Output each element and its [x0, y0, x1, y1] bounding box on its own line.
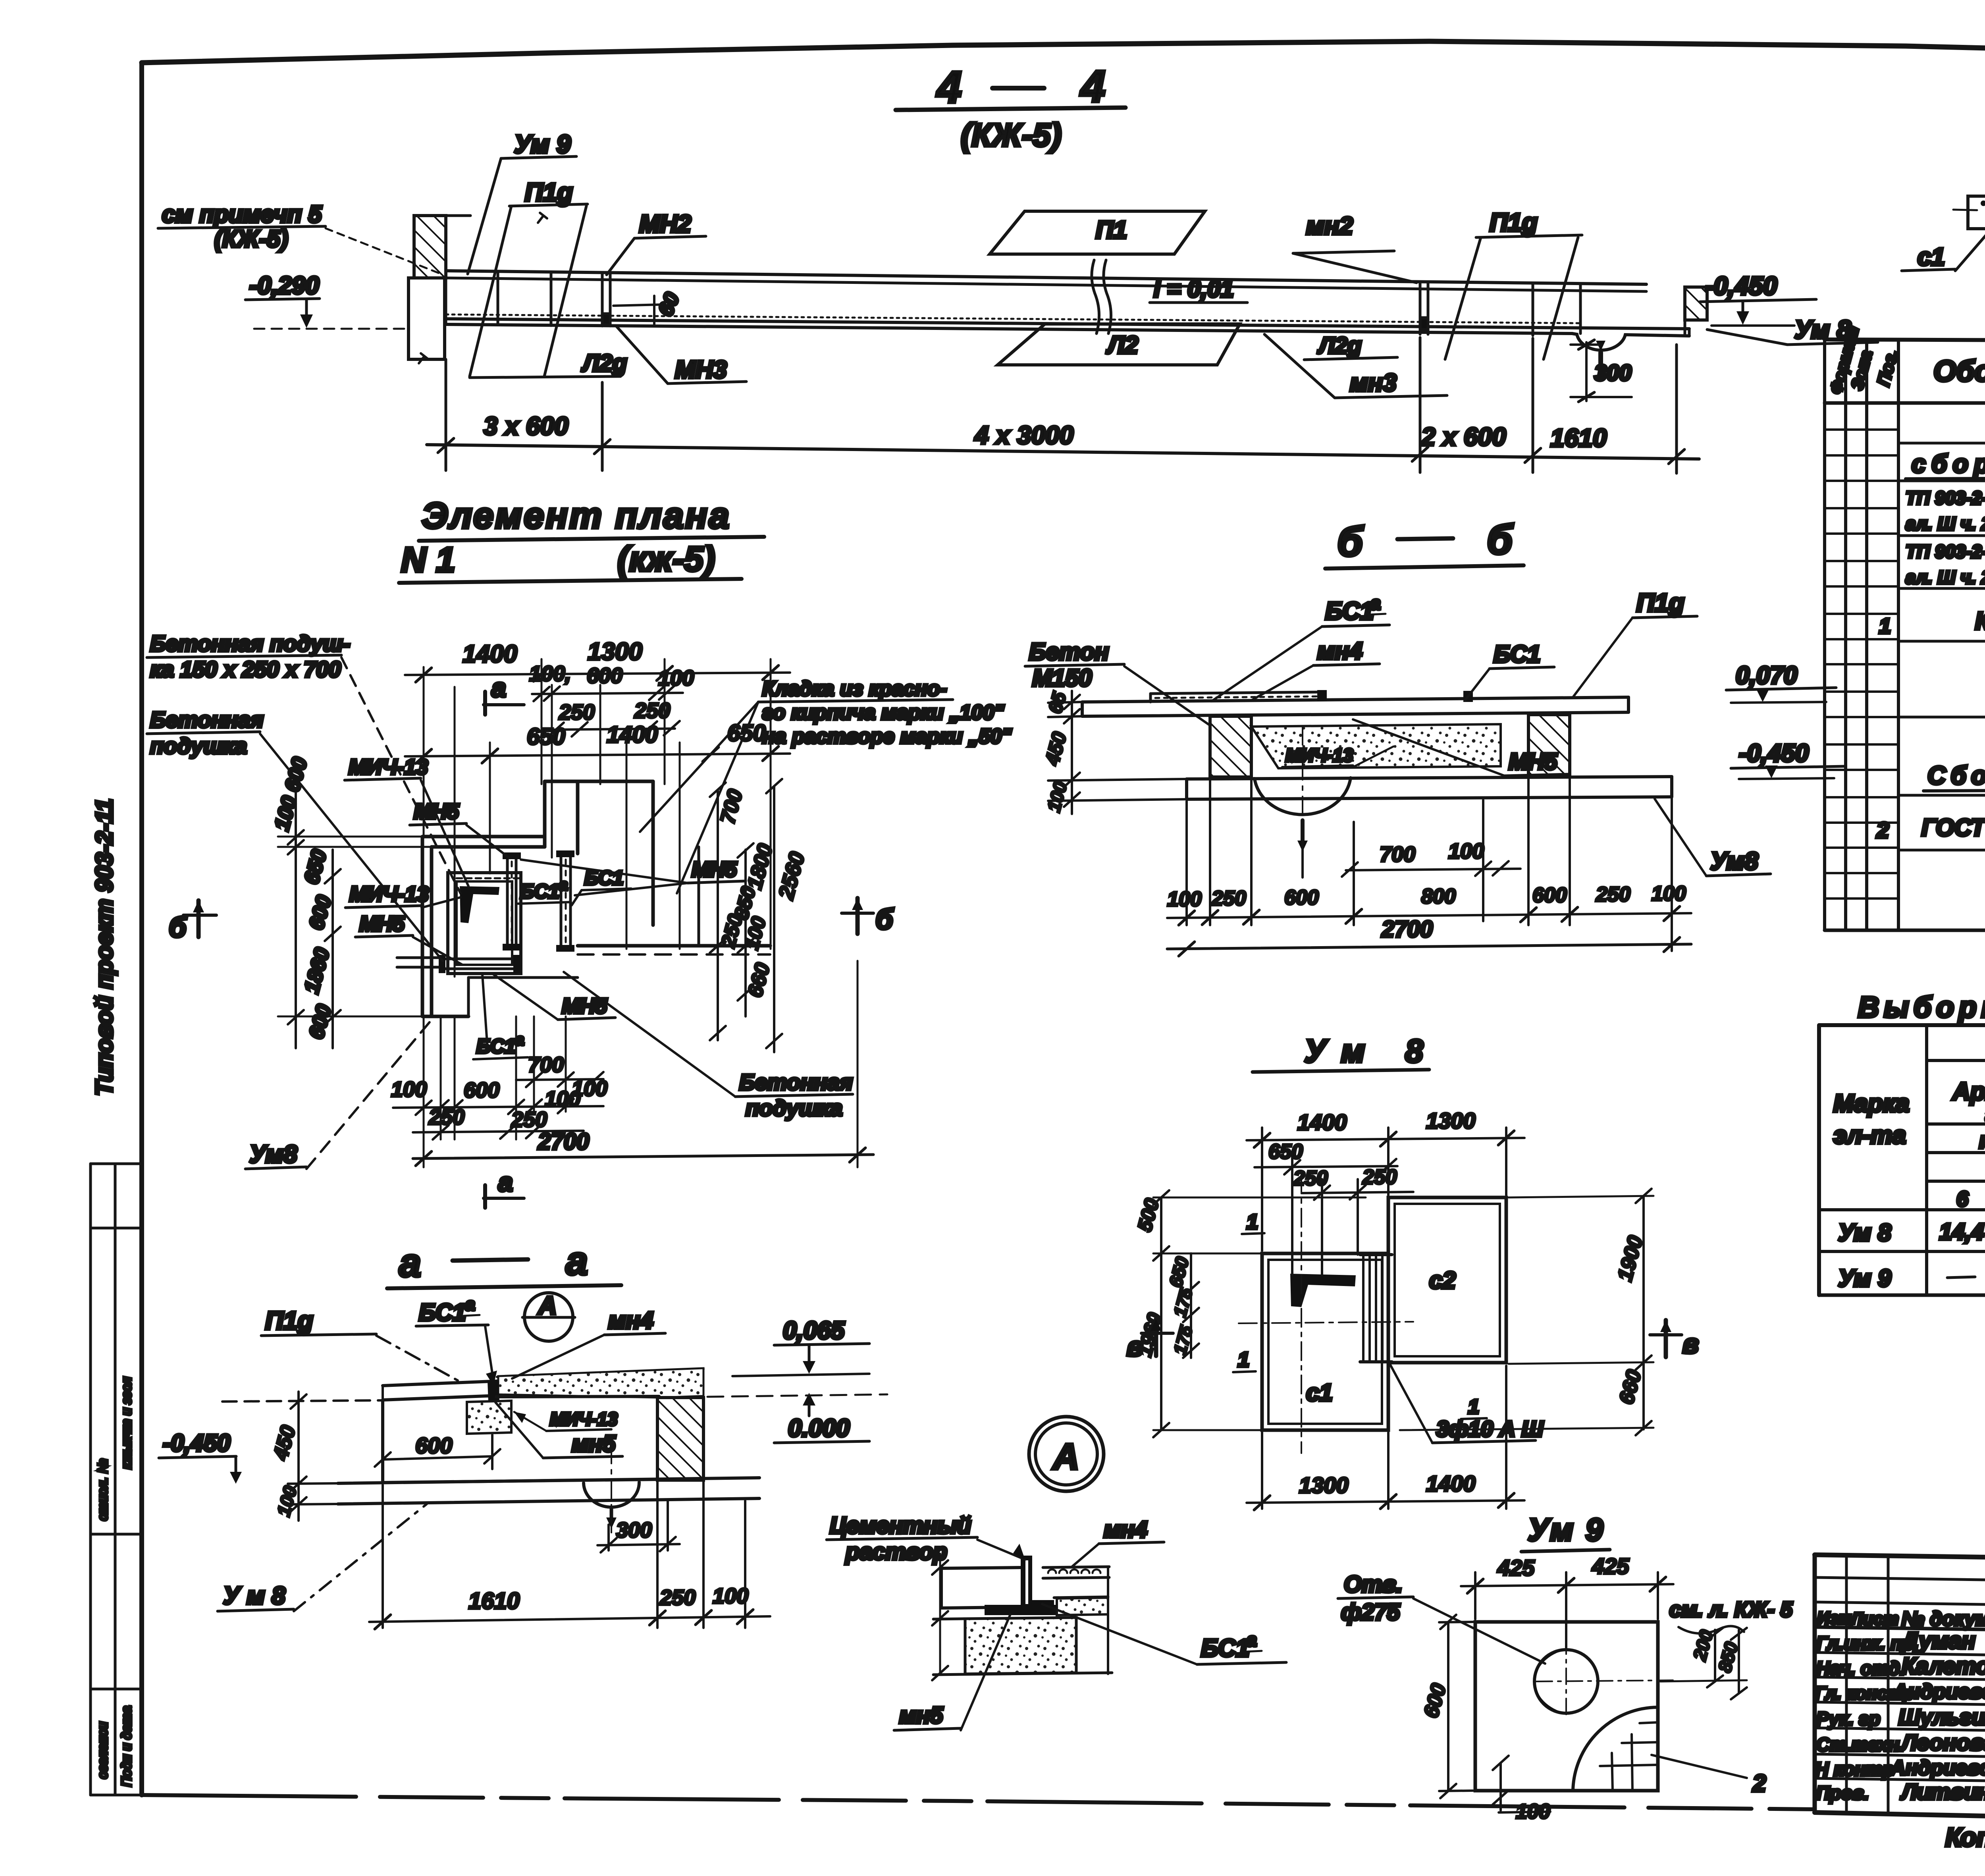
svg-text:650: 650 — [1268, 1140, 1303, 1163]
dim 60 — [613, 289, 684, 326]
level -0.450 top — [1700, 272, 1816, 326]
svg-text:1300: 1300 — [1299, 1473, 1349, 1498]
svg-text:Обозначение: Обозначение — [1933, 355, 1985, 388]
label cement mortar — [827, 1513, 1025, 1565]
right rotated dims — [710, 779, 809, 1052]
section mark b right — [842, 898, 894, 935]
svg-text:МН5: МН5 — [359, 912, 405, 936]
Um8 label 3f10AIII — [1389, 1362, 1544, 1443]
svg-text:с1: с1 — [1918, 243, 1945, 271]
b-b foundation slab — [1187, 727, 1672, 856]
b-b left hatched wall — [1210, 716, 1251, 777]
label L2g left flag — [470, 350, 627, 378]
svg-text:б: б — [875, 904, 894, 935]
b-b bottom chain — [1167, 776, 1691, 951]
svg-text:250: 250 — [1211, 887, 1246, 910]
svg-text:100: 100 — [391, 1078, 427, 1101]
svg-text:БС1: БС1 — [1494, 641, 1540, 667]
b-b label P1g — [1573, 588, 1697, 697]
bottom dim 100 600 100 row — [391, 1078, 603, 1115]
b-b label MN5 — [1353, 719, 1569, 776]
svg-text:600: 600 — [1284, 886, 1319, 909]
svg-text:б: б — [1337, 519, 1364, 565]
svg-text:мн5: мн5 — [572, 1431, 616, 1457]
detail A right slab and concrete — [932, 1554, 1112, 1680]
svg-text:БС1: БС1 — [1325, 598, 1374, 625]
beam joints — [446, 271, 1580, 335]
bracket MICH-13 in plan — [460, 886, 499, 923]
label Um9 — [468, 130, 576, 274]
label MICH-13 — [345, 755, 468, 886]
svg-text:МН3: МН3 — [675, 356, 727, 384]
Um9 circle hole — [1534, 1650, 1598, 1713]
svg-text:650: 650 — [527, 724, 565, 750]
svg-text:100: 100 — [1167, 888, 1202, 911]
steel table grid — [1819, 1025, 1985, 1295]
a-a foundation — [338, 1445, 759, 1533]
svg-text:Ум 9: Ум 9 — [1838, 1265, 1891, 1292]
label mn4 detail — [1072, 1517, 1164, 1567]
svg-text:Цементный: Цементный — [830, 1513, 971, 1539]
Um9 quarter mesh corner — [1573, 1707, 1658, 1791]
pin under arc — [1598, 353, 1603, 376]
svg-text:мн2: мн2 — [1306, 212, 1353, 240]
svg-text:мн3: мн3 — [1350, 369, 1397, 397]
svg-text:раствор: раствор — [845, 1539, 947, 1565]
svg-text:мн4: мн4 — [608, 1307, 653, 1334]
svg-text:с1: с1 — [1306, 1379, 1333, 1406]
plan N1 wall outline — [422, 781, 770, 1016]
svg-text:-0,450: -0,450 — [163, 1430, 230, 1456]
L2 parallelogram mid-span — [998, 324, 1240, 365]
svg-text:МИЧ-13: МИЧ-13 — [1285, 745, 1353, 765]
svg-text:1610: 1610 — [468, 1588, 520, 1614]
svg-text:1: 1 — [1879, 614, 1891, 638]
svg-text:Ум 8: Ум 8 — [1304, 1033, 1423, 1069]
svg-text:мн4: мн4 — [1317, 638, 1363, 664]
Um8 rebar bundle — [1360, 1255, 1392, 1362]
Um9 plan square — [1475, 1622, 1658, 1791]
svg-text:300: 300 — [616, 1518, 652, 1542]
a-a level -0.450 left — [159, 1430, 242, 1484]
svg-text:на растворе марки „50": на растворе марки „50" — [762, 725, 1012, 748]
title block outer frame — [1815, 1555, 1985, 1829]
svg-text:6: 6 — [1956, 1187, 1969, 1211]
b-b level -0.450 — [1731, 740, 1845, 779]
section 4-4 beam deck lines — [446, 271, 1689, 334]
svg-text:с2: с2 — [1429, 1267, 1456, 1294]
label BS1a in pit — [518, 876, 571, 904]
svg-text:Пров.: Пров. — [1816, 1782, 1869, 1803]
a-a label MICH-13 — [514, 1409, 618, 1431]
plan dim extension verticals top — [424, 659, 771, 977]
svg-text:3 х 600: 3 х 600 — [484, 412, 569, 440]
steel table texts — [1833, 1029, 1985, 1296]
svg-text:Кладка из красно-: Кладка из красно- — [762, 677, 947, 700]
svg-text:Калетов: Калетов — [1902, 1653, 1985, 1679]
section 4-4 left wall pier — [409, 213, 547, 363]
svg-text:П1g: П1g — [1490, 208, 1538, 237]
Um8 dims 650 250 250 — [1255, 1140, 1413, 1274]
bottom dim 250 250 — [413, 1105, 584, 1139]
svg-text:1400: 1400 — [1426, 1471, 1476, 1496]
svg-text:БС1: БС1 — [419, 1299, 466, 1326]
section 4-4 title — [896, 62, 1125, 153]
slope label i=0.01 — [1150, 276, 1247, 303]
label MN5 bottom — [492, 974, 615, 1020]
svg-text:мн5: мн5 — [899, 1702, 943, 1728]
left margin stamp table — [91, 1164, 142, 1795]
svg-text:ГОСТ 8478 - 66: ГОСТ 8478 - 66 — [1921, 814, 1985, 841]
svg-text:Ум8: Ум8 — [249, 1141, 297, 1168]
label betonnaja podushka 150x250x700 — [147, 631, 461, 893]
parts table fine stub rows — [1825, 430, 1898, 898]
svg-text:кжыкчт и зэсл: кжыкчт и зэсл — [119, 1377, 134, 1469]
svg-text:250: 250 — [634, 699, 670, 723]
svg-text:а: а — [566, 1239, 588, 1283]
Um8 left dims — [1133, 1190, 1366, 1437]
b-b label BS1 — [1465, 641, 1554, 700]
a-a left dims 450 100 — [222, 1392, 383, 1521]
svg-text:П1g: П1g — [265, 1306, 313, 1335]
svg-text:М150: М150 — [1032, 665, 1092, 691]
label betonnaja podushka right bottom — [564, 972, 853, 1120]
svg-text:Элемент плана: Элемент плана — [422, 496, 731, 536]
label L2g right — [1304, 333, 1397, 360]
svg-text:в: в — [1127, 1332, 1143, 1362]
svg-text:2: 2 — [1876, 817, 1889, 843]
svg-text:100: 100 — [1652, 882, 1686, 905]
svg-text:стисл. №: стисл. № — [95, 1459, 110, 1521]
a-a label mn5 — [495, 1402, 622, 1458]
b-b bottom dims 700 100 — [1303, 800, 1521, 921]
svg-text:подушка: подушка — [150, 733, 247, 758]
svg-text:подушка: подушка — [746, 1095, 842, 1120]
svg-text:а: а — [1247, 1629, 1257, 1650]
label MN2 right — [1293, 212, 1416, 283]
label Um8 right — [1707, 315, 1878, 345]
svg-text:4 х 3000: 4 х 3000 — [974, 421, 1073, 449]
svg-text:0,070: 0,070 — [1736, 662, 1797, 689]
note sm primech — [158, 201, 439, 273]
b-b label Beton M150 — [1025, 638, 1209, 725]
svg-text:ал. Ш ч. 2: ал. Ш ч. 2 — [1906, 513, 1985, 534]
svg-text:600: 600 — [464, 1078, 499, 1102]
Um8 plan title — [1253, 1033, 1429, 1072]
svg-text:-0,450: -0,450 — [1739, 740, 1809, 767]
svg-text:Л2: Л2 — [1106, 332, 1138, 359]
svg-text:250: 250 — [1596, 883, 1630, 906]
svg-text:250: 250 — [659, 1586, 696, 1610]
svg-text:Арматурная сталь: Арматурная сталь — [1952, 1078, 1985, 1105]
detail A circle mark — [1029, 1417, 1104, 1491]
a-a level 0.065 — [732, 1317, 869, 1376]
svg-text:300: 300 — [1594, 360, 1631, 385]
Um9 label Otv f275 — [1338, 1571, 1545, 1664]
Um9 label 2 — [1652, 1755, 1766, 1797]
b-b level 0.070 — [1726, 662, 1836, 703]
svg-text:в: в — [1682, 1329, 1699, 1359]
svg-text:1300: 1300 — [588, 638, 642, 665]
b-b label mn4 — [1251, 638, 1380, 700]
svg-text:а: а — [515, 1031, 524, 1049]
svg-text:600: 600 — [587, 664, 622, 688]
a-a bottom dims — [369, 1482, 770, 1629]
svg-text:Ст.техн.: Ст.техн. — [1816, 1734, 1904, 1755]
svg-text:Бетонная подуш-: Бетонная подуш- — [150, 631, 350, 656]
Um8 plan outline C1 — [1262, 1253, 1388, 1430]
Um9 right dims 200 850 — [1660, 1628, 1747, 1699]
beam break mark — [1092, 260, 1111, 334]
label MICH-13 mid — [345, 882, 461, 908]
Um9 title — [1521, 1512, 1610, 1552]
a-a label BS1a — [416, 1295, 497, 1386]
b-b top mesh piece — [1151, 690, 1473, 702]
svg-text:(КЖ-5): (КЖ-5) — [961, 117, 1062, 153]
b-b left vertical dims 65 450 100 — [1041, 689, 1187, 814]
svg-text:700: 700 — [528, 1053, 564, 1077]
svg-text:а: а — [491, 673, 506, 702]
section mark b left — [169, 900, 216, 943]
svg-text:Ум 8: Ум 8 — [1838, 1219, 1891, 1246]
svg-text:650: 650 — [727, 720, 766, 746]
svg-text:А: А — [538, 1291, 557, 1320]
svg-text:У м 8: У м 8 — [223, 1582, 285, 1610]
svg-text:4: 4 — [1080, 62, 1105, 111]
svg-text:ТП 903-2-Н: ТП 903-2-Н — [1906, 488, 1985, 508]
svg-text:Копир В Бург: Копир В Бург — [1945, 1822, 1985, 1852]
section b-b title — [1325, 517, 1524, 569]
svg-text:800: 800 — [1421, 885, 1456, 908]
svg-text:i = 0,01: i = 0,01 — [1154, 276, 1234, 302]
svg-text:(кж-5): (кж-5) — [617, 539, 715, 578]
svg-text:250: 250 — [428, 1105, 464, 1129]
svg-text:-0,450: -0,450 — [1705, 272, 1777, 300]
svg-text:Думан: Думан — [1900, 1628, 1975, 1654]
svg-text:б: б — [1487, 517, 1514, 563]
svg-text:МИЧ-13: МИЧ-13 — [550, 1409, 618, 1429]
svg-text:Марка: Марка — [1833, 1090, 1909, 1117]
a-a label mn4 — [512, 1307, 665, 1379]
a-a wall body — [383, 1396, 659, 1483]
label BS1a bottom — [473, 975, 528, 1059]
Um8 section v marks — [1127, 1319, 1699, 1362]
top dim chain 1400 1300 — [405, 638, 790, 682]
a-a top mesh screed band — [497, 1368, 703, 1398]
Um8 bottom dims — [1247, 1366, 1524, 1510]
svg-text:Типовой проект 903-2-11: Типовой проект 903-2-11 — [91, 798, 118, 1096]
svg-text:а: а — [559, 876, 568, 894]
section a-a title — [387, 1239, 621, 1288]
label MN5 right — [521, 858, 746, 895]
svg-text:Шульгина: Шульгина — [1898, 1704, 1985, 1729]
svg-text:а: а — [1370, 593, 1381, 613]
title block signature grid — [1815, 1555, 1985, 1818]
title block signature rows — [1815, 1628, 1985, 1804]
svg-text:425: 425 — [1592, 1554, 1629, 1579]
svg-text:Изм.: Изм. — [1817, 1608, 1856, 1628]
parts table rows — [1876, 412, 1985, 927]
svg-text:Леонова: Леонова — [1900, 1730, 1985, 1755]
svg-text:П1: П1 — [1096, 216, 1127, 244]
svg-text:см. л. КЖ- 5: см. л. КЖ- 5 — [1669, 1598, 1793, 1621]
svg-text:1610: 1610 — [1550, 424, 1607, 452]
svg-text:Ум 9: Ум 9 — [514, 130, 571, 158]
svg-text:ал. Ш ч. 2: ал. Ш ч. 2 — [1906, 567, 1985, 588]
a-a dim 600 — [375, 1433, 500, 1469]
dim chain 650 1400 650 — [405, 720, 790, 764]
left rotated dims — [270, 755, 432, 1048]
frame left border — [139, 63, 144, 1795]
svg-text:БС1: БС1 — [520, 880, 559, 902]
svg-text:Лист: Лист — [1850, 1609, 1899, 1629]
parts table header texts — [1826, 324, 1985, 396]
a-a label P1g — [261, 1306, 459, 1381]
Um8 bracket black — [1290, 1274, 1356, 1307]
svg-text:а: а — [399, 1241, 421, 1285]
frame top border — [142, 41, 1985, 63]
svg-text:Сборочные единицы и детали: Сборочные единицы и детали — [1927, 761, 1985, 790]
b-b concrete fill stipple — [1251, 724, 1501, 768]
svg-text:250: 250 — [1362, 1166, 1397, 1189]
parts table content row lines — [1898, 443, 1985, 850]
svg-text:Бетон: Бетон — [1029, 638, 1109, 665]
svg-text:14,4: 14,4 — [1939, 1219, 1984, 1245]
P1 parallelogram mid-span — [990, 211, 1205, 254]
svg-text:Н контр: Н контр — [1815, 1758, 1894, 1780]
svg-text:Отв.: Отв. — [1344, 1571, 1403, 1597]
right hatched wall — [1685, 287, 1707, 320]
label MN3 left — [616, 326, 746, 384]
svg-text:П1g: П1g — [525, 178, 573, 206]
svg-text:МН5: МН5 — [692, 858, 737, 881]
Um9 left dim 600 — [1420, 1615, 1473, 1798]
svg-text:425: 425 — [1497, 1555, 1535, 1580]
a-a label Um8 — [218, 1504, 427, 1611]
mesh strip BS1 vertical — [556, 850, 574, 952]
bottom dim extension verticals — [424, 961, 858, 1167]
svg-text:см примечп 5: см примечп 5 — [162, 201, 322, 228]
svg-text:1: 1 — [1468, 1396, 1479, 1418]
svg-text:Гл.инж. пр: Гл.инж. пр — [1816, 1633, 1914, 1654]
label kladka — [640, 677, 1012, 893]
svg-text:эл-та: эл-та — [1833, 1122, 1906, 1149]
b-b label MICH-13 inside — [1282, 745, 1393, 767]
parts list table grid — [1825, 339, 1985, 930]
label MN2 left — [607, 210, 706, 275]
svg-text:Выборка стали на один элем: Выборка стали на один элемент, кг — [1858, 991, 1985, 1024]
dim chain 100 600 100 — [529, 662, 694, 701]
dim 300 right — [1571, 340, 1632, 402]
label BS1a detail — [1042, 1604, 1286, 1664]
svg-text:2700: 2700 — [1381, 916, 1433, 942]
Um8 top dims — [1247, 1108, 1524, 1251]
svg-text:1400: 1400 — [1297, 1110, 1347, 1135]
frame bottom border — [142, 1795, 1815, 1809]
svg-text:Андриевская: Андриевская — [1890, 1756, 1985, 1780]
svg-text:ка 150 х 250 х 700: ка 150 х 250 х 700 — [150, 657, 341, 682]
svg-text:БС1: БС1 — [476, 1035, 516, 1057]
a-a circle A mark — [522, 1291, 575, 1341]
concrete pad with stipple — [467, 1401, 511, 1434]
label MN5 mid — [355, 912, 463, 965]
svg-text:1400: 1400 — [607, 722, 658, 748]
svg-text:250: 250 — [1293, 1167, 1328, 1190]
svg-text:100,: 100, — [529, 662, 571, 686]
title block header texts — [1817, 1608, 1985, 1632]
label C1 — [1902, 210, 1985, 271]
svg-text:Нач. отд.: Нач. отд. — [1816, 1658, 1905, 1679]
svg-text:1400: 1400 — [463, 640, 517, 668]
svg-text:А: А — [1052, 1436, 1079, 1477]
svg-text:МН2: МН2 — [639, 210, 691, 238]
svg-text:сезлепси: сезлепси — [95, 1722, 110, 1779]
svg-text:№ докум.: № докум. — [1902, 1608, 1985, 1630]
svg-text:а: а — [465, 1295, 475, 1314]
svg-text:Подп и дата: Подп и дата — [119, 1706, 134, 1787]
v-v rebar dots — [1981, 201, 1985, 225]
svg-text:600: 600 — [1532, 884, 1567, 907]
svg-text:2: 2 — [1752, 1770, 1766, 1797]
mark a bottom — [484, 1167, 524, 1208]
svg-text:Ум8: Ум8 — [1710, 848, 1758, 875]
a-a junction bracket black — [488, 1380, 499, 1402]
svg-text:Литвинова: Литвинова — [1900, 1779, 1985, 1804]
label betonnaja podushka left — [147, 707, 443, 961]
b-b label BS1a — [1213, 593, 1389, 700]
Um8 right dims 1900 660 — [1400, 1189, 1654, 1435]
label Um8 plan — [245, 1018, 433, 1169]
svg-text:2 х 600: 2 х 600 — [1421, 422, 1506, 451]
Um8 section 1-1 marks — [1233, 1211, 1264, 1372]
svg-text:1: 1 — [1238, 1348, 1249, 1371]
svg-text:а: а — [498, 1167, 513, 1197]
mesh strip BS1a vertical — [503, 852, 521, 951]
level -0.290 — [245, 272, 409, 329]
detail A angle bracket with cement — [985, 1556, 1057, 1615]
svg-text:Л2g: Л2g — [1317, 333, 1362, 359]
Um9 note sm KZh-5 — [1669, 1598, 1793, 1633]
svg-text:1: 1 — [1247, 1211, 1258, 1234]
svg-text:МН5: МН5 — [1509, 749, 1557, 775]
a-a level 0.000 — [707, 1393, 887, 1443]
svg-text:БС1: БС1 — [1201, 1635, 1249, 1662]
detail A left slab — [942, 1568, 1022, 1608]
mark a top — [484, 673, 524, 715]
b-b label Um8 — [1655, 799, 1771, 876]
svg-text:П1g: П1g — [1636, 588, 1684, 617]
svg-text:4: 4 — [936, 62, 962, 112]
v-v slab strip — [1953, 196, 1985, 231]
svg-text:Бетонная: Бетонная — [739, 1070, 853, 1095]
Um9 centerlines — [1536, 1608, 1675, 1719]
label P1g right flag — [1445, 208, 1582, 359]
label mn5 detail — [894, 1614, 1010, 1730]
svg-text:Ум 9: Ум 9 — [1528, 1512, 1603, 1547]
svg-text:Бетонная: Бетонная — [150, 707, 264, 732]
b-b deck plate — [1082, 697, 1628, 716]
bottom dimension chain — [427, 337, 1699, 473]
b-b right hatched wall — [1528, 715, 1570, 775]
label MN5 top — [410, 800, 509, 858]
Um9 top dims 425 425 — [1461, 1554, 1673, 1648]
svg-text:Л2g: Л2g — [581, 350, 627, 376]
label MN3 right — [1264, 334, 1447, 398]
svg-text:МИЧ-13: МИЧ-13 — [349, 882, 429, 906]
svg-text:МИЧ-13: МИЧ-13 — [349, 755, 428, 779]
svg-text:100: 100 — [658, 666, 694, 690]
svg-text:Рук. гр: Рук. гр — [1816, 1708, 1880, 1729]
